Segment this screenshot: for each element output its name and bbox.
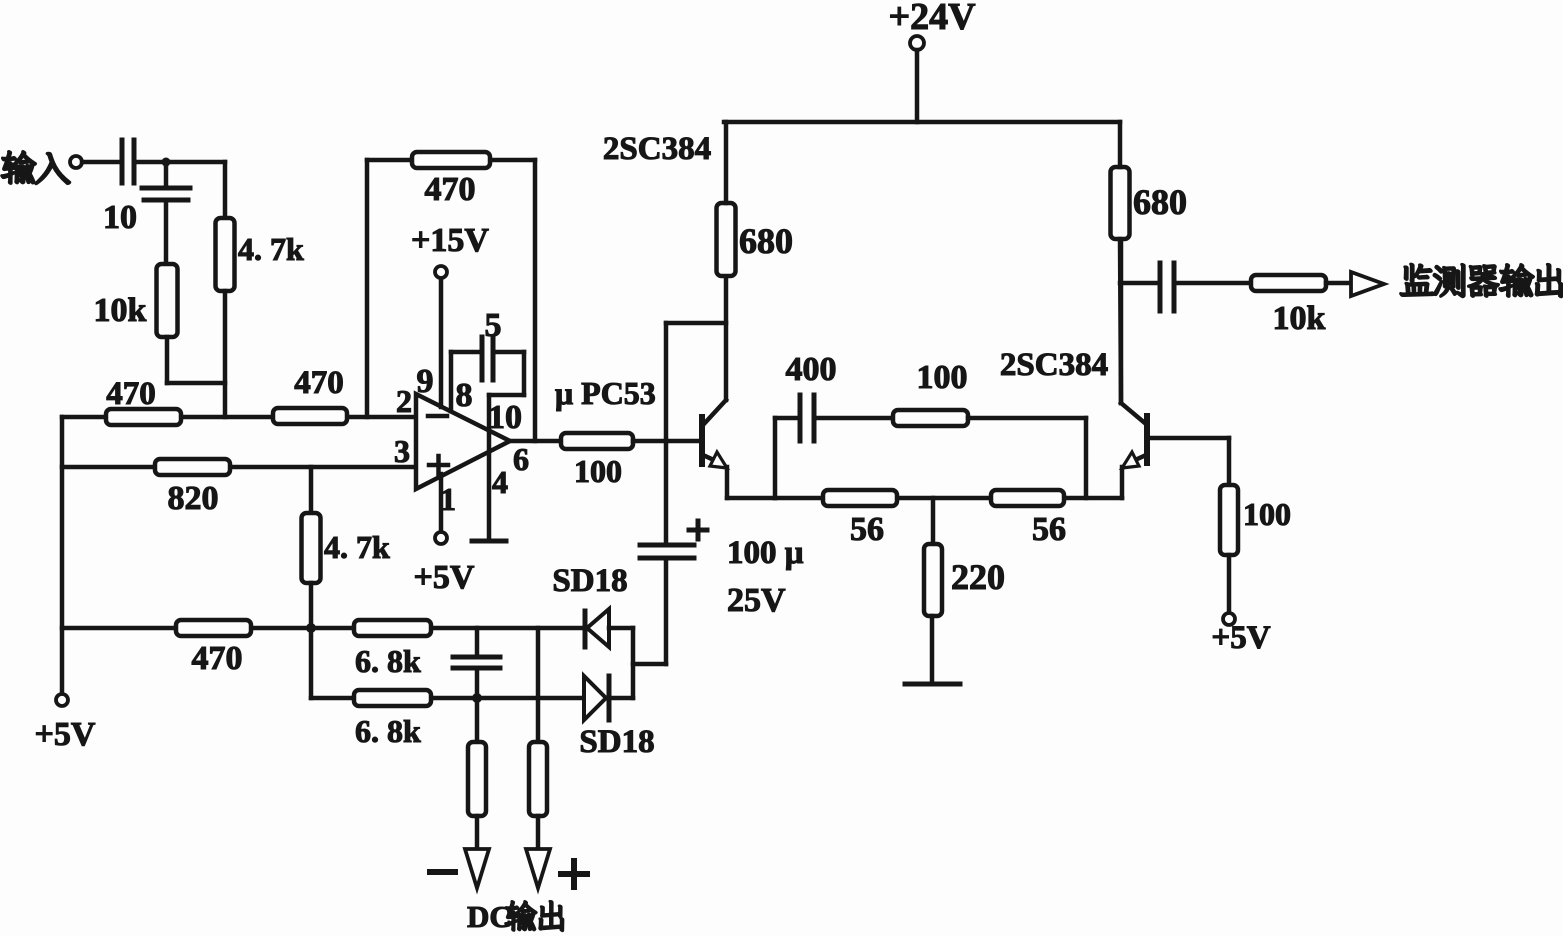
wire 100 to Q1 base [633,439,702,444]
wire pin10/pin4 vertical to ground [487,395,492,540]
svg-text:56: 56 [1032,511,1066,548]
wire junction down to 4.7k [223,162,228,218]
svg-text:6. 8k: 6. 8k [355,713,421,749]
wire upper rail to DC plus resistor [536,628,541,742]
svg-text:10: 10 [488,399,522,436]
resistor 470 (first, inverting rail) [106,409,181,425]
wire non-inverting rail [62,465,417,470]
svg-text:25V: 25V [727,582,786,619]
wire to cap 400 [775,416,798,421]
capacitor pin5 compensation [480,337,485,380]
resistor 10k [157,264,178,337]
Q1 collector [703,400,726,425]
wire C2 to R 10k [164,202,169,264]
wire inverting-input rail [62,415,417,420]
svg-text:100 μ: 100 μ [727,535,804,571]
wire left supply rail [60,417,65,694]
svg-text:4. 7k: 4. 7k [324,529,390,565]
wire 680 to +24V bus [724,122,729,203]
wire cap pin10 side [495,350,524,355]
node junction dot [472,693,482,703]
resistor 4.7k (input) [216,218,235,291]
label plus of cap [689,528,707,533]
svg-text:10: 10 [103,199,137,236]
svg-text:680: 680 [739,221,793,261]
feedback loop: output vertical [533,160,538,441]
node +5V terminal (left) [56,694,68,706]
resistor 6.8k (upper) [354,620,431,636]
wire 4.7k to lower rail [309,583,314,628]
wire emitter rail [775,496,1122,501]
resistor 470 feedback [412,152,490,168]
wire resistor to arrow [475,816,480,849]
svg-text:10k: 10k [1273,300,1326,337]
wire cap to R100 [817,416,893,421]
wire R100 right, down to rail [968,416,1086,421]
wire junction down from pin3 rail [309,467,314,513]
wire lower rail (upper of pair) [62,626,584,631]
wire base-collector link [664,323,669,441]
wire to output cap [1120,281,1157,286]
wire +24V to bus [915,50,920,122]
svg-text:4: 4 [492,464,508,500]
svg-text:400: 400 [786,351,837,388]
wire connector to cap [633,662,666,667]
svg-text:470: 470 [106,376,156,412]
wire cap to Q1 base node [664,441,669,543]
label minus sign [430,869,455,875]
wire between rails [309,628,314,698]
node +24V terminal [910,36,924,50]
svg-text:6. 8k: 6. 8k [355,643,421,679]
resistor 56 (right) [991,490,1064,506]
wire D2 to connector [609,696,633,701]
ground (op-amp pin4) [472,539,506,544]
svg-text:3: 3 [394,433,410,469]
capacitor 400 [798,395,803,441]
wire +15V to pin 9 [439,279,444,407]
svg-text:DC: DC [467,899,512,934]
wire input to C1 [82,160,119,165]
resistor 220 [924,544,942,616]
feedback left vertical to pin2 rail [365,160,370,417]
arrow DC plus terminal [526,849,550,888]
plus sign inside [429,463,448,468]
resistor 10k (output) [1251,275,1326,291]
svg-text:10k: 10k [94,292,147,329]
capacitor output coupling [1158,263,1163,311]
wire rail to 220 [931,498,936,544]
wire 100 to +5V [1227,555,1232,613]
wire cap to 10k [1177,281,1251,286]
svg-text:470: 470 [294,365,344,401]
resistor 680 (Q1 collector) [717,203,736,276]
wire to DC minus resistor [475,698,480,742]
svg-text:4. 7k: 4. 7k [238,231,304,267]
minus sign inside [428,414,447,419]
resistor 56 (left) [823,490,897,506]
svg-text:470: 470 [192,640,243,677]
svg-text:8: 8 [456,377,473,414]
resistor 470 (second, inverting rail) [273,408,347,424]
svg-text:9: 9 [417,363,434,400]
svg-text:5: 5 [485,307,502,344]
resistor 6.8k (lower) [354,690,431,706]
svg-text:56: 56 [850,511,884,548]
Q1 emitter with arrow [703,455,716,461]
wire 4.7k to inverting rail [223,291,228,417]
svg-text:+24V: +24V [888,0,976,38]
transistor Q1 2SC384 [699,417,705,464]
wire emitter node vertical [773,418,778,498]
node +5V terminal (op-amp) [435,532,447,544]
wire diode connector vertical [631,628,636,698]
wire D1 to connector [609,626,633,631]
wire 220 to ground [930,616,935,683]
wire lower rail (lower of pair) [311,696,584,701]
node: input terminal 输入 [70,156,82,168]
wire op-amp output [509,439,561,444]
node junction dot [306,623,316,633]
capacitor C2 value 10 (shunt) [164,162,169,186]
arrow DC minus terminal [465,849,489,888]
resistor (DC plus leg) [529,742,547,816]
label 监测器输出 [1400,264,1562,297]
resistor 100 (feedback top) [893,410,968,426]
svg-text:SD18: SD18 [579,724,654,760]
wire Q2 collector node [1120,239,1121,403]
capacitor 100u/25V electrolytic [640,543,694,548]
svg-text:2SC384: 2SC384 [603,131,711,167]
diode D1 SD18 (upper, cathode left) [583,611,588,647]
resistor 470 (lower rail) [176,620,251,636]
svg-text:+15V: +15V [411,222,489,259]
resistor 100 (Q2 base) [1220,485,1238,555]
wire 10k to arrow [1326,281,1351,286]
+15V terminal [435,266,447,278]
wire 680 to bus [1118,122,1123,167]
wire Q1 emitter to rail [727,496,775,501]
svg-text:100: 100 [574,453,622,489]
resistor 820 [155,459,230,475]
label 输入 [1,151,70,184]
svg-text:+5V: +5V [414,559,475,596]
wire +24V bus [724,120,1120,125]
svg-text:470: 470 [425,171,476,208]
wire cap pin8 side [451,350,480,355]
svg-text:2: 2 [396,383,412,419]
resistor 100 (output series) [561,433,633,449]
capacitor C4 between rails [475,628,480,654]
label plus sign [561,871,587,877]
arrow monitor output [1351,272,1384,296]
wire resistor to arrow [536,816,541,849]
transistor Q2 2SC384 [1144,416,1150,463]
Q2 base wire [1148,436,1229,441]
feedback top wire [367,158,535,163]
op-amp U1 uPC53 triangle [416,394,510,489]
svg-text:μ PC53: μ PC53 [555,375,656,411]
wire pin1 to +5V [439,474,444,532]
svg-text:SD18: SD18 [552,563,627,599]
svg-text:100: 100 [1243,496,1291,532]
resistor (DC minus leg) [468,742,486,816]
svg-text:6: 6 [513,441,529,477]
svg-text:2SC384: 2SC384 [1000,347,1108,383]
svg-text:220: 220 [951,557,1005,597]
resistor 680 (Q2 collector) [1111,167,1130,239]
svg-text:+5V: +5V [1211,620,1270,656]
node junction dot input [162,158,171,167]
Q2 emitter with arrow [1133,455,1146,461]
resistor 4.7k (bias) [302,513,321,583]
wire C1 to junction [137,160,225,165]
capacitor C1 (series input cap) [120,140,125,183]
node +5V terminal (Q2) [1223,613,1235,625]
diode D2 SD18 (lower, cathode right) [584,676,606,720]
svg-text:100: 100 [917,359,968,396]
svg-text:680: 680 [1133,182,1187,222]
svg-text:+5V: +5V [35,716,96,753]
Q2 collector [1121,403,1146,424]
wire 10k bottom bend [165,337,170,383]
svg-text:820: 820 [168,480,219,517]
ground (220) [905,682,960,687]
